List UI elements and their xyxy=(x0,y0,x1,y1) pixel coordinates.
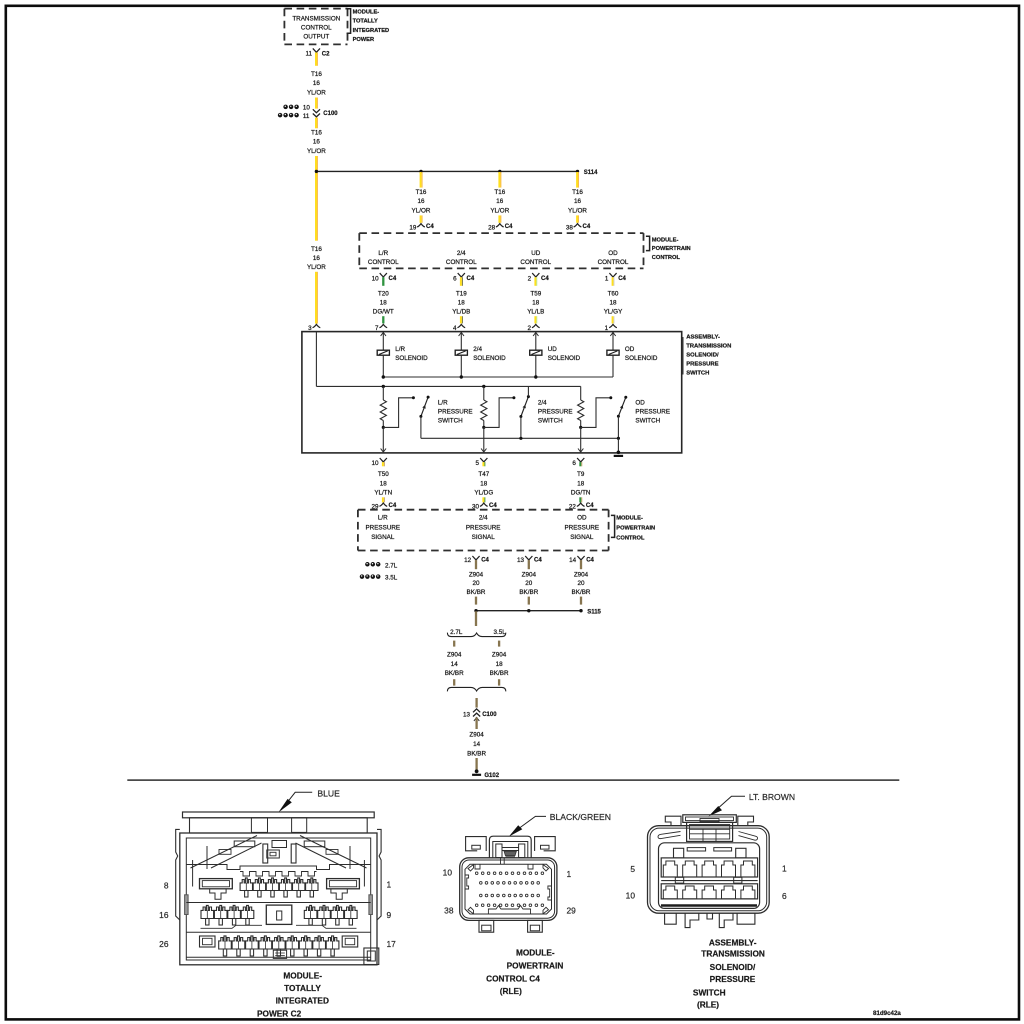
svg-text:3.5L: 3.5L xyxy=(493,629,506,636)
svg-text:18: 18 xyxy=(609,299,617,306)
svg-text:PRESSURE: PRESSURE xyxy=(564,524,599,531)
wire solenoid to bus1 xyxy=(612,355,614,377)
svg-text:BK/BR: BK/BR xyxy=(490,670,509,677)
svg-text:G102: G102 xyxy=(484,773,499,779)
wire to output pin xyxy=(382,427,384,452)
connector C4 pin 1 (T60) xyxy=(609,273,616,277)
connector C100 pin 13 xyxy=(473,709,480,712)
C4 body inner xyxy=(462,860,555,918)
svg-text:18: 18 xyxy=(496,661,504,668)
svg-text:BK/BR: BK/BR xyxy=(519,589,538,596)
svg-text:18: 18 xyxy=(532,299,540,306)
connector pin 6 (T9) xyxy=(577,458,584,462)
svg-text:L/R: L/R xyxy=(378,250,388,257)
svg-text:ASSEMBLY-: ASSEMBLY- xyxy=(686,334,720,340)
C4 body outer xyxy=(460,858,557,921)
svg-text:14: 14 xyxy=(569,557,577,564)
wire T19 18 YL/DB xyxy=(460,277,462,286)
svg-text:16: 16 xyxy=(417,198,425,205)
C4 right bracket ear xyxy=(535,837,556,851)
svg-text:POWERTRAIN: POWERTRAIN xyxy=(507,961,564,971)
wire Z904 20 BK/BR xyxy=(475,560,477,569)
wire T16 16 YL/OR branch 2 xyxy=(498,172,500,188)
node xyxy=(474,609,477,612)
split brace top (2.7L / 3.5L) xyxy=(447,633,505,637)
pressure switch 2/4 xyxy=(521,397,529,417)
C2 side slots xyxy=(185,895,189,915)
wire pivot to bus3 xyxy=(520,417,522,439)
svg-text:2.7L: 2.7L xyxy=(450,629,463,636)
C4 top latch xyxy=(489,836,531,858)
svg-text:T50: T50 xyxy=(378,471,389,478)
svg-text:YL/GY: YL/GY xyxy=(604,308,623,315)
TRS seal lip right xyxy=(739,832,758,841)
C4 top edge tabs xyxy=(475,864,480,869)
svg-text:C4: C4 xyxy=(541,276,549,282)
svg-text:MODULE-: MODULE- xyxy=(516,948,555,958)
module PCM dashed box 2: pressure signals xyxy=(358,509,609,511)
svg-text:10: 10 xyxy=(443,867,453,877)
bus1 junction nodes xyxy=(382,375,385,378)
svg-text:TRANSMISSION: TRANSMISSION xyxy=(686,343,731,349)
C4 pin grid xyxy=(475,872,478,875)
box entry pin 1 xyxy=(609,324,617,327)
svg-text:MODULE-: MODULE- xyxy=(652,237,679,243)
svg-text:16: 16 xyxy=(496,198,504,205)
svg-text:T47: T47 xyxy=(478,471,489,478)
svg-text:POWERTRAIN: POWERTRAIN xyxy=(616,526,655,532)
S114 branch node 2 xyxy=(498,170,501,173)
TRS top left ear xyxy=(665,816,681,826)
svg-text:T16: T16 xyxy=(311,246,322,253)
svg-text:T16: T16 xyxy=(416,189,427,196)
connector pin 10 (T50) xyxy=(380,458,387,462)
C2 bottom band xyxy=(186,956,370,958)
svg-text:8: 8 xyxy=(164,881,169,891)
svg-text:YL/OR: YL/OR xyxy=(412,207,431,214)
svg-text:MODULE-: MODULE- xyxy=(616,516,643,522)
svg-text:2/4: 2/4 xyxy=(457,250,466,257)
TRS inner face bottom thick xyxy=(661,904,757,906)
svg-text:YL/TN: YL/TN xyxy=(374,490,392,497)
svg-text:CONTROL C4: CONTROL C4 xyxy=(486,973,540,983)
svg-text:T20: T20 xyxy=(378,290,389,297)
svg-text:L/R: L/R xyxy=(395,346,405,353)
svg-text:OD: OD xyxy=(608,250,618,257)
splice S114 bus xyxy=(316,170,577,172)
svg-text:SWITCH: SWITCH xyxy=(635,417,660,424)
svg-text:20: 20 xyxy=(472,580,480,587)
C2 left mounting ear xyxy=(176,829,180,920)
svg-text:L/R: L/R xyxy=(438,400,448,407)
wire T59 18 YL/LB xyxy=(534,277,536,286)
bracket for MODULE-POWERTRAIN CONTROL (top) xyxy=(646,236,650,250)
svg-text:18: 18 xyxy=(577,480,585,487)
connector C4 pin 12 (Z904) xyxy=(472,556,479,560)
resistor (L/R pressure sense) xyxy=(382,386,384,400)
svg-text:CONTROL: CONTROL xyxy=(446,259,477,266)
merge brace bottom xyxy=(447,687,505,691)
svg-text:SOLENOID/: SOLENOID/ xyxy=(686,352,719,358)
wire pivot to bus3 xyxy=(617,416,619,438)
svg-text:2/4: 2/4 xyxy=(538,400,547,407)
svg-text:(RLE): (RLE) xyxy=(500,986,522,996)
svg-text:T9: T9 xyxy=(577,471,585,478)
svg-text:YL/DB: YL/DB xyxy=(452,308,470,315)
C4 face plate xyxy=(465,864,552,914)
connector C2 pin 11 xyxy=(313,48,320,52)
svg-text:2/4: 2/4 xyxy=(479,514,488,521)
box entry pin 7 xyxy=(379,324,387,327)
svg-text:6: 6 xyxy=(453,275,457,282)
wire T20 18 DG/WT xyxy=(382,277,384,286)
C2 right mounting ear xyxy=(377,829,381,920)
C2 castellated shelf xyxy=(186,865,370,870)
resistor (2/4 pressure sense) xyxy=(483,386,485,400)
svg-text:SIGNAL: SIGNAL xyxy=(472,534,496,541)
svg-text:16: 16 xyxy=(313,255,321,262)
C2 outer shell xyxy=(180,833,377,965)
svg-text:T16: T16 xyxy=(572,189,583,196)
wire T50 18 YL/TN xyxy=(382,462,384,466)
C4 left bracket ear xyxy=(466,837,487,851)
connector C4 pin 13 (Z904) xyxy=(525,556,532,560)
TRS terminal row 1 (pins 1-5) xyxy=(661,858,757,877)
marker 2.7L (3 rings) xyxy=(365,562,370,567)
svg-text:38: 38 xyxy=(566,224,574,231)
svg-text:C4: C4 xyxy=(489,503,497,509)
svg-text:CONTROL: CONTROL xyxy=(652,255,681,261)
bus2 junction nodes xyxy=(382,385,385,388)
connector pin 5 (T47) xyxy=(480,458,487,462)
splice S115 bus xyxy=(476,610,581,612)
svg-text:SOLENOID: SOLENOID xyxy=(625,355,658,362)
wire T16 16 YL/OR branch 1 xyxy=(420,172,422,188)
svg-text:6: 6 xyxy=(782,891,787,901)
box entry pin 3 xyxy=(313,324,321,327)
svg-text:38: 38 xyxy=(444,905,454,915)
svg-text:OD: OD xyxy=(577,514,587,521)
svg-text:C4: C4 xyxy=(389,276,397,282)
svg-text:T59: T59 xyxy=(530,290,541,297)
svg-text:ASSEMBLY-: ASSEMBLY- xyxy=(709,938,757,948)
svg-text:INTEGRATED: INTEGRATED xyxy=(353,28,390,34)
connector C4 pin 30 xyxy=(480,503,488,506)
svg-text:18: 18 xyxy=(458,299,466,306)
link resistor to switch contact xyxy=(484,398,514,428)
wire Z904 14 BK/BR (2.7L leg) xyxy=(453,641,455,647)
TRS bottom feet xyxy=(665,913,677,924)
pressure switch L/R xyxy=(421,397,428,416)
svg-text:T60: T60 xyxy=(608,290,619,297)
svg-text:C4: C4 xyxy=(583,224,591,230)
svg-text:SOLENOID: SOLENOID xyxy=(395,355,428,362)
C2 center lock tower xyxy=(263,844,268,863)
svg-text:PRESSURE: PRESSURE xyxy=(466,524,501,531)
C4 bottom feet xyxy=(479,920,494,932)
svg-text:14: 14 xyxy=(473,741,481,748)
solenoid UD SOLENOID xyxy=(535,332,537,351)
svg-text:C4: C4 xyxy=(534,557,542,563)
connector C4 pin 2 (T59) xyxy=(532,273,539,277)
svg-text:BK/BR: BK/BR xyxy=(467,750,486,757)
wire to C100 xyxy=(475,698,477,708)
svg-text:INTEGRATED: INTEGRATED xyxy=(276,996,329,1006)
svg-text:29: 29 xyxy=(567,905,577,915)
TRS body outer xyxy=(648,826,770,914)
connector C4 pin 22 xyxy=(577,503,585,506)
node resistor bottom xyxy=(382,426,385,429)
TRS top right ear xyxy=(738,816,754,826)
marker 3.5L (4 rings) xyxy=(360,574,365,579)
node xyxy=(579,609,582,612)
svg-text:16: 16 xyxy=(159,910,169,920)
svg-text:MODULE-: MODULE- xyxy=(283,971,322,981)
svg-text:(RLE): (RLE) xyxy=(697,1000,719,1010)
svg-text:11: 11 xyxy=(303,113,310,120)
wire Z904 14 BK/BR (to ground) xyxy=(474,717,479,721)
svg-text:POWER: POWER xyxy=(353,37,375,43)
svg-text:Z904: Z904 xyxy=(522,571,537,578)
svg-text:Z904: Z904 xyxy=(469,571,484,578)
C2 terminal row 3 xyxy=(186,931,370,933)
wire T16 16 YL/OR segment 1 xyxy=(315,53,317,66)
svg-text:3.5L: 3.5L xyxy=(385,575,398,582)
svg-text:CONTROL: CONTROL xyxy=(520,259,551,266)
link resistor to switch contact xyxy=(581,398,611,428)
svg-text:CONTROL: CONTROL xyxy=(301,25,332,32)
svg-text:1: 1 xyxy=(567,869,572,879)
svg-text:UD: UD xyxy=(548,346,558,353)
bracket for MODULE-POWERTRAIN CONTROL (bottom) xyxy=(611,515,615,537)
svg-text:16: 16 xyxy=(313,139,321,146)
svg-text:14: 14 xyxy=(451,661,459,668)
svg-text:SWITCH: SWITCH xyxy=(693,988,726,998)
svg-text:CONTROL: CONTROL xyxy=(598,259,629,266)
svg-text:C4: C4 xyxy=(481,557,489,563)
svg-text:DG/TN: DG/TN xyxy=(571,490,591,497)
svg-text:PRESSURE: PRESSURE xyxy=(438,409,473,416)
box entry pin 2 xyxy=(532,324,540,327)
C2 upper slots xyxy=(234,841,255,847)
connector C4 pin 38 xyxy=(574,224,582,227)
svg-text:C100: C100 xyxy=(482,712,497,718)
svg-text:1: 1 xyxy=(605,275,609,282)
bracket for ASSEMBLY label xyxy=(682,337,684,375)
TRS top row keys xyxy=(674,848,684,858)
svg-text:6: 6 xyxy=(572,460,576,467)
svg-text:C4: C4 xyxy=(467,276,475,282)
wire T9 18 DG/TN xyxy=(579,462,581,466)
svg-text:OD: OD xyxy=(625,346,635,353)
wire T60 18 YL/GY xyxy=(612,277,614,286)
svg-text:OUTPUT: OUTPUT xyxy=(303,34,329,41)
svg-text:Z904: Z904 xyxy=(492,651,507,658)
wire T16 16 YL/OR segment 2 xyxy=(315,118,317,129)
svg-text:YL/DG: YL/DG xyxy=(474,490,493,497)
svg-text:10: 10 xyxy=(371,460,379,467)
TRS seal lip left xyxy=(658,832,681,839)
connector C4 pin 6 (T19) xyxy=(458,273,465,277)
pressure switch OD xyxy=(618,397,625,416)
svg-text:MODULE-: MODULE- xyxy=(353,10,380,16)
svg-text:20: 20 xyxy=(525,580,533,587)
svg-text:81d9c42a: 81d9c42a xyxy=(873,1010,901,1017)
TRS inner face xyxy=(659,843,760,909)
svg-text:16: 16 xyxy=(313,80,321,87)
TRS terminal row 2 (pins 6-10) xyxy=(661,884,757,899)
svg-text:SOLENOID: SOLENOID xyxy=(548,355,581,362)
svg-text:C4: C4 xyxy=(426,224,434,230)
TRS body inner xyxy=(650,828,767,911)
svg-text:1: 1 xyxy=(387,880,392,890)
node resistor bottom xyxy=(482,426,485,429)
svg-text:19: 19 xyxy=(409,224,417,231)
connector C4 pin 28 xyxy=(496,224,504,227)
svg-text:PRESSURE: PRESSURE xyxy=(686,361,718,367)
svg-text:2.7L: 2.7L xyxy=(385,562,398,569)
svg-text:2: 2 xyxy=(528,275,532,282)
connector C4 pin 29 xyxy=(379,503,387,506)
ground (internal, case) xyxy=(617,438,619,453)
svg-text:C2: C2 xyxy=(322,52,330,58)
svg-text:L/R: L/R xyxy=(378,514,388,521)
svg-text:12: 12 xyxy=(464,557,472,564)
connector C4 pin 19 xyxy=(417,224,425,227)
svg-text:TRANSMISSION: TRANSMISSION xyxy=(292,16,340,23)
svg-text:C4: C4 xyxy=(618,276,626,282)
connector C4 pin 10 (T20) xyxy=(380,273,387,277)
wire T47 18 YL/DG xyxy=(482,462,484,466)
svg-text:13: 13 xyxy=(463,711,471,718)
svg-text:YL/OR: YL/OR xyxy=(307,89,326,96)
svg-text:BLACK/GREEN: BLACK/GREEN xyxy=(550,812,611,822)
wire to output pin xyxy=(580,427,582,452)
svg-text:LT. BROWN: LT. BROWN xyxy=(749,792,795,802)
C2 terminal row 1 xyxy=(200,879,233,889)
svg-text:9: 9 xyxy=(387,910,392,920)
svg-text:S114: S114 xyxy=(584,170,598,176)
svg-text:YL/LB: YL/LB xyxy=(527,308,544,315)
svg-text:DG/WT: DG/WT xyxy=(373,308,394,315)
svg-text:BK/BR: BK/BR xyxy=(572,589,591,596)
C2 inner shell xyxy=(186,838,370,960)
C2 upper diagonals xyxy=(191,836,258,869)
svg-text:YL/OR: YL/OR xyxy=(307,148,326,155)
solenoid 2/4 SOLENOID xyxy=(460,332,462,351)
node resistor bottom xyxy=(579,426,582,429)
svg-text:Z904: Z904 xyxy=(469,732,484,739)
C4 face corner chamfers xyxy=(468,865,474,871)
C2 side rails xyxy=(192,860,194,887)
link resistor to switch contact xyxy=(383,398,413,428)
wire Z904 18 BK/BR (3.5L leg) xyxy=(498,641,500,647)
svg-text:PRESSURE: PRESSURE xyxy=(710,974,756,984)
svg-text:CONTROL: CONTROL xyxy=(616,535,645,541)
stub 2/4 switch to bus2 xyxy=(527,386,529,396)
TRS top latch tower xyxy=(683,815,737,823)
svg-text:T16: T16 xyxy=(311,129,322,136)
module TIPM dashed box: TRANSMISSION CONTROL OUTPUT xyxy=(284,8,347,10)
svg-text:5: 5 xyxy=(630,864,635,874)
TRS mid divider xyxy=(661,880,757,882)
svg-text:YL/OR: YL/OR xyxy=(307,264,326,271)
svg-text:SWITCH: SWITCH xyxy=(686,370,709,376)
C4 bottom center tab xyxy=(488,906,530,915)
wire pivot to bus3 xyxy=(420,416,422,438)
svg-text:YL/OR: YL/OR xyxy=(490,207,509,214)
svg-text:11: 11 xyxy=(305,51,312,58)
svg-text:PRESSURE: PRESSURE xyxy=(365,524,400,531)
svg-text:BK/BR: BK/BR xyxy=(467,589,486,596)
svg-text:OD: OD xyxy=(635,400,645,407)
svg-text:20: 20 xyxy=(577,580,585,587)
svg-text:13: 13 xyxy=(517,557,525,564)
connector C100 (pins 10/11) xyxy=(283,105,288,110)
svg-text:16: 16 xyxy=(574,198,582,205)
assembly box: transmission solenoid/pressure switch xyxy=(302,332,682,453)
svg-text:1: 1 xyxy=(782,864,787,874)
wire solenoid to bus1 xyxy=(382,355,384,377)
bus3 (switch common) xyxy=(421,437,619,439)
svg-text:POWER C2: POWER C2 xyxy=(257,1008,302,1018)
svg-text:T19: T19 xyxy=(456,290,467,297)
svg-text:BLUE: BLUE xyxy=(317,788,340,798)
bus1 (solenoid common) xyxy=(383,376,613,378)
svg-text:TOTALLY: TOTALLY xyxy=(284,983,321,993)
wire below S115 xyxy=(475,611,477,626)
wire: pin3 to bus2 xyxy=(315,332,317,387)
svg-text:PRESSURE: PRESSURE xyxy=(635,409,670,416)
S114 branch node 3 xyxy=(576,170,579,173)
box entry pin 4 xyxy=(457,324,465,327)
svg-text:18: 18 xyxy=(380,299,388,306)
svg-text:T16: T16 xyxy=(494,189,505,196)
wire Z904 20 BK/BR xyxy=(528,560,530,569)
svg-text:2/4: 2/4 xyxy=(473,346,482,353)
bracket for MODULE-TOTALLY INTEGRATED POWER xyxy=(347,9,351,33)
svg-text:TRANSMISSION: TRANSMISSION xyxy=(701,949,765,959)
C4 keying right xyxy=(548,886,552,900)
svg-text:28: 28 xyxy=(488,224,496,231)
svg-text:17: 17 xyxy=(387,939,397,949)
C2 housing lid xyxy=(190,818,368,833)
svg-text:C4: C4 xyxy=(389,503,397,509)
S114 branch node 1 xyxy=(419,170,422,173)
svg-text:10: 10 xyxy=(372,275,380,282)
module PCM dashed box: solenoid controls xyxy=(359,232,643,234)
svg-text:T16: T16 xyxy=(311,71,322,78)
svg-text:SWITCH: SWITCH xyxy=(438,417,463,424)
svg-text:SIGNAL: SIGNAL xyxy=(371,534,395,541)
svg-text:TOTALLY: TOTALLY xyxy=(353,19,378,25)
svg-text:BK/BR: BK/BR xyxy=(445,670,464,677)
ground G102 xyxy=(475,769,479,773)
svg-text:Z904: Z904 xyxy=(447,651,462,658)
bus2 (supply bus) xyxy=(316,385,580,387)
svg-text:10: 10 xyxy=(626,890,636,900)
svg-text:C4: C4 xyxy=(586,503,594,509)
svg-text:Z904: Z904 xyxy=(574,571,589,578)
C2 terminal row 2 xyxy=(186,902,370,904)
svg-text:10: 10 xyxy=(303,105,311,112)
svg-text:POWERTRAIN: POWERTRAIN xyxy=(652,246,691,252)
connector C4 pin 14 (Z904) xyxy=(577,556,584,560)
svg-text:S115: S115 xyxy=(587,610,601,616)
wire Z904 20 BK/BR xyxy=(580,560,582,569)
solenoid OD SOLENOID xyxy=(612,332,614,351)
svg-text:SOLENOID: SOLENOID xyxy=(473,355,506,362)
